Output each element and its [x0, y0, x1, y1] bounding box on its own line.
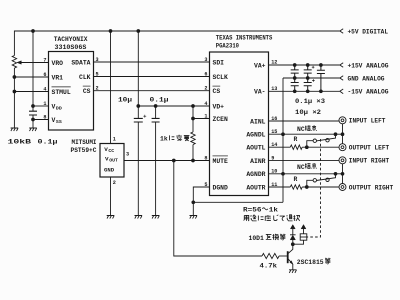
node VA- taps — [293, 89, 323, 93]
svg-text:VA+: VA+ — [254, 62, 266, 69]
svg-text:VR1: VR1 — [52, 74, 64, 81]
label 0.1u — [38, 139, 58, 146]
label U1 pin numbers — [43, 57, 98, 121]
wire VA- rail — [269, 90, 340, 92]
svg-text:4: 4 — [43, 86, 46, 92]
potentiometer 10kB — [12, 56, 48, 69]
svg-text:5: 5 — [204, 182, 207, 188]
svg-text:SCLK: SCLK — [213, 74, 229, 81]
connector +5V DIGITAL — [340, 28, 388, 35]
node +5V rail junction dots — [31, 29, 140, 33]
svg-text:V: V — [52, 117, 56, 124]
wire DGND — [193, 187, 283, 216]
ground 0.1u — [152, 216, 160, 219]
svg-text:OUT: OUT — [109, 157, 118, 163]
svg-text:DGND: DGND — [213, 184, 229, 191]
wire VOUT-MUTE — [124, 160, 210, 162]
svg-text:TEXAS INSTRUMENTS: TEXAS INSTRUMENTS — [216, 35, 273, 42]
label R (right) — [294, 176, 298, 183]
node AGNDR junctions — [334, 172, 345, 176]
label youto ni oujite sentaku — [244, 215, 300, 221]
svg-text:4: 4 — [204, 101, 207, 107]
label U3 name — [216, 35, 273, 50]
relay coil K1 — [300, 234, 307, 240]
svg-text:8: 8 — [43, 114, 46, 120]
wire AOUTL with resistor R — [269, 145, 340, 149]
node collector junction — [291, 242, 295, 246]
svg-text:1k: 1k — [269, 207, 278, 214]
svg-text:-15V ANALOG: -15V ANALOG — [348, 89, 389, 96]
wire GND rail — [283, 77, 340, 79]
svg-text:10D1: 10D1 — [249, 235, 265, 242]
connector jack OUTPUT LEFT — [339, 144, 389, 152]
node ZCEN junction — [191, 117, 195, 121]
wire base drive — [174, 161, 262, 257]
svg-text:2: 2 — [204, 86, 207, 92]
label R (left) — [294, 136, 298, 143]
wire AINR — [269, 160, 340, 162]
IC U3 PGA2310 — [210, 52, 269, 196]
svg-text:OUTPUT LEFT: OUTPUT LEFT — [349, 145, 390, 152]
wire jack link R — [342, 164, 344, 184]
svg-text:+15V ANALOG: +15V ANALOG — [348, 62, 389, 69]
svg-text:VA-: VA- — [254, 89, 266, 96]
svg-text:PGA2310: PGA2310 — [216, 43, 239, 50]
wire pot lower leg — [13, 68, 15, 128]
wire CLK-SCLK — [94, 76, 210, 78]
node VA+ taps — [293, 63, 323, 67]
svg-text:6: 6 — [43, 72, 46, 78]
svg-text:R=56: R=56 — [243, 207, 262, 214]
svg-text:10µ ×2: 10µ ×2 — [295, 109, 321, 116]
label U3 left pin names — [213, 59, 229, 191]
node VR1/STMUL taps — [13, 75, 17, 93]
wire relay +5V arrow stubs — [290, 225, 306, 245]
svg-text:0.1µ: 0.1µ — [38, 139, 58, 146]
node AGNDL junctions — [334, 132, 345, 136]
wire AGNDR — [269, 173, 343, 175]
svg-text:SDI: SDI — [213, 59, 225, 66]
svg-text:1: 1 — [43, 101, 46, 107]
label U1 name — [54, 36, 88, 51]
wire VR1 — [14, 76, 48, 78]
svg-text:3310S06S: 3310S06S — [55, 44, 87, 51]
ground DGND — [190, 216, 198, 219]
diode 10D1 — [290, 235, 296, 240]
capacitor 0.1u (VD+) — [155, 106, 157, 118]
svg-text:AINL: AINL — [250, 118, 266, 125]
svg-text:CS: CS — [83, 88, 91, 95]
label U2 pin numbers — [113, 136, 129, 186]
node DGND star — [191, 200, 195, 204]
relay contact R — [307, 174, 336, 187]
label 10D1 compat — [249, 234, 286, 242]
wire VA+ rail — [269, 64, 340, 66]
label U3 right pin names — [246, 62, 265, 191]
svg-text:NC: NC — [297, 164, 305, 171]
label 0.1u x3 — [295, 98, 325, 105]
transistor Q1 2SC1815 — [288, 244, 293, 270]
svg-text:GND ANALOG: GND ANALOG — [348, 75, 385, 82]
svg-text:+5V DIGITAL: +5V DIGITAL — [348, 28, 389, 35]
capacitor bank column C — [317, 65, 325, 91]
svg-text:CLK: CLK — [79, 74, 91, 81]
svg-text:CC: CC — [108, 148, 114, 154]
wire +5V rail — [14, 31, 339, 56]
svg-text:2: 2 — [113, 180, 116, 186]
resistor 4.7k — [262, 253, 288, 258]
svg-text:4.7k: 4.7k — [260, 263, 278, 270]
label 2SC1815 — [297, 258, 331, 266]
wire relay mechanical link (dashed) — [307, 139, 321, 237]
svg-text:1k: 1k — [160, 136, 168, 143]
wire U2 VCC feed — [110, 31, 112, 144]
ground pot — [11, 128, 19, 131]
capacitor 10u — [134, 118, 143, 122]
svg-text:AGNDR: AGNDR — [246, 171, 265, 178]
capacitor bank column A — [291, 65, 299, 91]
label U1 left pin names — [52, 60, 71, 125]
svg-text:1: 1 — [204, 113, 207, 119]
wire 0.1u lower leg — [155, 122, 157, 216]
svg-text:STMUL: STMUL — [52, 89, 71, 96]
label R=56-1k — [243, 207, 278, 214]
svg-text:SS: SS — [56, 119, 62, 125]
label U2 name — [71, 139, 97, 154]
connector jack OUTPUT RIGHT — [339, 184, 393, 192]
wire VSS — [33, 115, 49, 128]
connector +15V ANALOG — [340, 62, 389, 69]
svg-text:GND: GND — [104, 167, 115, 174]
wire ZCEN branch — [193, 106, 210, 132]
wire 10u lower leg — [137, 122, 139, 216]
capacitor 0.1u (VDD-VSS) — [29, 111, 37, 115]
connector jack INPUT RIGHT — [339, 157, 389, 165]
node VD+ junctions — [136, 104, 194, 108]
label 10kB — [8, 139, 32, 146]
wire VDD feed — [33, 31, 49, 111]
resistor 1k (pull) — [191, 132, 195, 161]
svg-text:AGNDL: AGNDL — [246, 132, 265, 139]
IC U1 TACHYONIX 3310S06S — [49, 52, 94, 131]
node AOUTL junction — [305, 145, 309, 149]
svg-text:CS: CS — [213, 88, 221, 95]
wire AGNDL — [269, 133, 343, 135]
svg-text:3: 3 — [126, 152, 129, 158]
ground VSS cap — [29, 128, 37, 131]
svg-text:VD+: VD+ — [213, 103, 225, 110]
connector jack INPUT LEFT — [339, 117, 386, 125]
label NC contact R — [297, 163, 317, 171]
svg-text:0.1µ: 0.1µ — [150, 97, 169, 104]
label 4.7k — [260, 263, 278, 270]
node MUTE junctions — [172, 159, 195, 163]
svg-text:MITSUMI: MITSUMI — [72, 139, 97, 146]
svg-text:INPUT RIGHT: INPUT RIGHT — [349, 158, 390, 165]
svg-text:0.1µ ×3: 0.1µ ×3 — [295, 98, 325, 105]
node AOUTR junction — [305, 185, 309, 189]
svg-text:6: 6 — [204, 71, 207, 77]
ground 10u — [135, 216, 143, 219]
svg-text:INPUT LEFT: INPUT LEFT — [349, 118, 386, 125]
wire jack link L — [342, 124, 344, 144]
node GND taps — [293, 76, 310, 80]
svg-text:10µ: 10µ — [118, 97, 132, 104]
svg-text:10kB: 10kB — [8, 139, 32, 146]
wire U2 GND leg — [110, 177, 112, 216]
svg-text:VRO: VRO — [52, 60, 64, 67]
IC U2 MITSUMI PST59+C — [100, 144, 124, 178]
svg-text:DD: DD — [56, 106, 62, 112]
svg-text:MUTE: MUTE — [213, 158, 229, 165]
connector -15V ANALOG — [340, 89, 389, 96]
wire AGND bus — [282, 78, 284, 202]
svg-text:2SC1815: 2SC1815 — [297, 259, 324, 266]
ground Q1 emitter — [289, 270, 297, 273]
label U2 pin names — [104, 146, 118, 174]
wire AOUTR with resistor R — [269, 185, 340, 189]
label 10u polarity — [143, 115, 146, 118]
wire SDATA-SDI — [94, 61, 210, 63]
svg-text:TACHYONIX: TACHYONIX — [54, 36, 88, 43]
wire VD+ feed — [138, 31, 209, 118]
label 10u x2 — [295, 109, 321, 116]
svg-text:AOUTL: AOUTL — [246, 145, 265, 152]
svg-text:OUTPUT RIGHT: OUTPUT RIGHT — [349, 184, 394, 191]
label 10u — [118, 97, 132, 104]
svg-text:AINR: AINR — [250, 158, 266, 165]
label U3 pin numbers — [204, 57, 277, 188]
svg-text:ZCEN: ZCEN — [213, 116, 229, 123]
ground U2 — [107, 216, 115, 219]
connector GND ANALOG — [340, 75, 385, 82]
svg-text:7: 7 — [43, 57, 46, 63]
node AGND bus taps — [281, 132, 285, 175]
svg-text:R: R — [294, 136, 298, 143]
svg-text:NC: NC — [297, 126, 305, 133]
wire AINL — [269, 120, 340, 122]
svg-text:R: R — [294, 176, 298, 183]
relay contact L — [307, 134, 336, 147]
svg-text:V: V — [52, 103, 56, 110]
svg-text:8: 8 — [204, 155, 207, 161]
wire STMUL — [14, 91, 48, 93]
label NC contact L — [297, 125, 317, 133]
node VDD/VSS junctions — [31, 104, 35, 121]
svg-text:1: 1 — [113, 136, 116, 142]
capacitor bank column B 10u pair — [304, 65, 315, 91]
svg-text:SDATA: SDATA — [71, 59, 90, 66]
label 0.1u (VD+) — [150, 97, 169, 104]
label 1k ni henkou — [160, 135, 189, 143]
wire CS-CS — [94, 90, 210, 92]
svg-text:AOUTR: AOUTR — [246, 184, 265, 191]
label U1 right pin names — [71, 59, 90, 95]
svg-text:PST59+C: PST59+C — [71, 147, 97, 154]
svg-text:3: 3 — [204, 57, 207, 63]
